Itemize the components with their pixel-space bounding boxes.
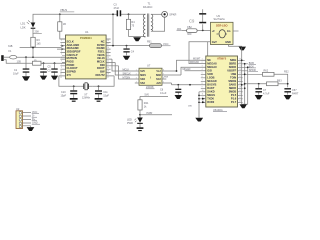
svg-text:2MOB: 2MOB xyxy=(229,90,237,94)
svg-text:SS3: SS3 xyxy=(140,82,145,85)
svg-text:MEGS: MEGS xyxy=(207,93,215,97)
node junction C1 tap xyxy=(25,56,27,58)
ground under C1 xyxy=(22,76,30,80)
svg-text:2: 2 xyxy=(61,44,62,46)
wire low row to R63 xyxy=(245,83,267,85)
svg-text:25: 25 xyxy=(239,62,241,64)
svg-text:DA101C: DA101C xyxy=(143,6,153,9)
U1 pin labels right column xyxy=(95,39,105,77)
node junction VBUS to U1 pin1 xyxy=(59,13,61,15)
svg-text:17: 17 xyxy=(107,77,109,79)
wire U5A row7 with C8 xyxy=(172,83,206,85)
U5A pin labels right column xyxy=(227,58,236,104)
svg-text:12MHz: 12MHz xyxy=(82,97,91,100)
svg-text:LD1: LD1 xyxy=(21,22,26,26)
wire VBUS down to U1 pin1 xyxy=(60,14,66,39)
svg-text:VBUS: VBUS xyxy=(60,8,67,12)
node junction C9 tap xyxy=(202,30,204,32)
svg-text:19: 19 xyxy=(107,70,109,72)
U5A left pin stubs xyxy=(199,60,206,95)
svg-text:MEGAC: MEGAC xyxy=(207,65,217,69)
node junction C10 tap xyxy=(73,85,75,87)
svg-text:600: 600 xyxy=(187,33,192,36)
svg-text:TXD0: TXD0 xyxy=(207,97,214,101)
node junction LED string to wire xyxy=(32,56,34,58)
ferrite bead FB1 xyxy=(150,44,162,48)
ground usb shield xyxy=(27,127,35,131)
node junction bus B row4 xyxy=(244,73,246,75)
wire U7 SCL up to U5A row0 xyxy=(177,60,206,71)
svg-text:4.7uF: 4.7uF xyxy=(263,92,270,95)
svg-text:6: 6 xyxy=(61,57,62,59)
svg-text:P1.7: P1.7 xyxy=(231,100,237,104)
svg-text:SC2: SC2 xyxy=(156,78,161,81)
svg-text:SMOB: SMOB xyxy=(228,79,236,83)
node junction left drop row11 xyxy=(198,98,200,100)
svg-text:DGND: DGND xyxy=(97,46,105,50)
svg-text:SBRD: SBRD xyxy=(229,62,236,66)
LED LD1 xyxy=(31,23,36,28)
svg-text:22: 22 xyxy=(107,60,109,62)
capacitor C5 xyxy=(54,63,56,75)
wire PWR net xyxy=(140,114,172,116)
speaker jack SPKR xyxy=(162,11,168,17)
svg-text:11: 11 xyxy=(202,94,204,96)
svg-text:10uF: 10uF xyxy=(13,72,19,75)
svg-text:OSI: OSI xyxy=(207,69,212,73)
svg-text:AT89Y5: AT89Y5 xyxy=(217,57,227,60)
svg-text:P1.6: P1.6 xyxy=(231,97,237,101)
svg-text:OuT: OuT xyxy=(212,41,217,44)
U9 right pin stub xyxy=(233,30,239,32)
svg-text:26: 26 xyxy=(239,59,241,61)
svg-text:TOIN: TOIN xyxy=(230,76,236,80)
U7 pin numbers xyxy=(136,70,164,84)
svg-text:XTI: XTI xyxy=(67,73,71,77)
svg-text:MW1: MW1 xyxy=(140,74,146,77)
svg-text:3: 3 xyxy=(136,78,137,80)
svg-text:26: 26 xyxy=(107,47,109,49)
U7 left stub row4 xyxy=(135,82,139,84)
svg-text:16: 16 xyxy=(239,94,241,96)
node junction C11 tap xyxy=(98,85,100,87)
svg-text:MCLK: MCLK xyxy=(97,60,105,64)
node junction left drop row10 xyxy=(198,94,200,96)
node junction left drop row12 xyxy=(198,101,200,103)
ground under C10 xyxy=(70,98,78,100)
svg-text:BUSYB: BUSYB xyxy=(207,83,216,87)
ground under C4 xyxy=(123,56,130,60)
svg-text:MROAD: MROAD xyxy=(190,61,199,64)
svg-text:12: 12 xyxy=(60,77,62,79)
svg-text:18: 18 xyxy=(239,87,241,89)
svg-text:GND: GND xyxy=(225,41,231,44)
wire 5V0 rail to R21 xyxy=(140,95,168,97)
capacitor C2 xyxy=(43,63,45,75)
ground under C7 xyxy=(255,95,263,99)
svg-text:FB1: FB1 xyxy=(147,41,152,44)
svg-text:JD1: JD1 xyxy=(177,27,182,31)
svg-text:PWR: PWR xyxy=(127,122,133,125)
ground under power LED xyxy=(139,124,141,128)
node junction VBUS drop meets FSEL wire xyxy=(112,45,114,47)
svg-text:23: 23 xyxy=(239,69,241,71)
svg-text:FB2: FB2 xyxy=(187,26,192,29)
svg-text:U1: U1 xyxy=(85,30,89,34)
wire U1 FSEL to ferrite xyxy=(106,45,149,47)
node junction R4 top xyxy=(128,13,130,15)
svg-text:SV0: SV0 xyxy=(140,70,145,73)
svg-text:3: 3 xyxy=(61,47,62,49)
svg-text:22: 22 xyxy=(239,73,241,75)
U5A right pin stubs xyxy=(238,60,263,102)
svg-text:SM3: SM3 xyxy=(156,74,162,77)
svg-text:17: 17 xyxy=(239,90,241,92)
wire R63 to junction xyxy=(278,83,288,85)
svg-text:25: 25 xyxy=(107,50,109,52)
pin arrows into U1 left xyxy=(62,45,65,47)
svg-text:7: 7 xyxy=(61,60,62,62)
svg-text:DOUT: DOUT xyxy=(97,66,105,70)
svg-text:47uF: 47uF xyxy=(114,7,120,10)
wire JD1 to U9 xyxy=(182,30,211,32)
svg-text:SBKD: SBKD xyxy=(229,86,236,90)
wire U9 GND to ground xyxy=(229,44,242,47)
svg-text:PCM2904: PCM2904 xyxy=(80,36,92,40)
svg-text:19: 19 xyxy=(239,83,241,85)
LED D2 power xyxy=(139,115,141,118)
wire right bus C xyxy=(245,67,248,104)
svg-text:NIKE: NIKE xyxy=(230,58,236,62)
svg-text:9: 9 xyxy=(202,87,203,89)
svg-text:18: 18 xyxy=(107,74,109,76)
svg-text:CLKOUT: CLKOUT xyxy=(67,66,79,70)
svg-text:4: 4 xyxy=(61,50,62,52)
wire net 31B crossing LED string xyxy=(20,47,61,49)
wire J2 sleeve diagonal xyxy=(4,60,66,63)
resistor R5 xyxy=(33,61,42,65)
svg-text:MIGAD: MIGAD xyxy=(183,68,191,71)
svg-text:1: 1 xyxy=(202,59,203,61)
svg-text:MEGA8: MEGA8 xyxy=(207,62,217,66)
label net stub 208 xyxy=(33,32,42,34)
node junction bus B row1 xyxy=(244,63,246,65)
svg-text:6: 6 xyxy=(202,76,203,78)
svg-text:3: 3 xyxy=(202,66,203,68)
svg-text:24: 24 xyxy=(107,54,109,56)
wire R3 to junction xyxy=(32,47,34,57)
U5A pin labels left column xyxy=(207,58,217,104)
node junction bus A row0 xyxy=(241,59,243,61)
wire secondary top to speaker xyxy=(151,13,162,15)
wire secondary bottom to speaker xyxy=(151,17,165,31)
ferrite bead FB2 xyxy=(187,29,198,33)
ground U9 xyxy=(239,47,246,51)
node junction C4 tap xyxy=(126,45,128,47)
U5A pin arrows bottom left xyxy=(199,99,202,103)
svg-text:NEGAD: NEGAD xyxy=(207,79,216,83)
svg-text:+F: +F xyxy=(212,30,215,33)
svg-text:MGMT: MGMT xyxy=(193,57,201,60)
svg-text:DAKT: DAKT xyxy=(207,86,215,90)
svg-text:21: 21 xyxy=(107,64,109,66)
capacitor C7 xyxy=(258,84,260,95)
svg-text:10: 10 xyxy=(202,90,204,92)
node junction bus C row2 xyxy=(247,66,249,68)
svg-text:DOUT2: DOUT2 xyxy=(95,73,105,77)
crystal X1 xyxy=(80,85,92,87)
wire U9 OuT down to U5A xyxy=(189,42,211,64)
svg-text:SAKD: SAKD xyxy=(207,90,214,94)
svg-text:C/BUS-P: C/BUS-P xyxy=(67,53,78,57)
svg-text:SMCLK: SMCLK xyxy=(123,72,132,75)
node junction C7 tap xyxy=(258,83,260,85)
fuse F1 xyxy=(10,55,17,59)
svg-text:R62: R62 xyxy=(264,70,269,73)
U1 left pin stubs xyxy=(57,39,66,76)
node junction on BUSYB wire xyxy=(189,84,191,86)
svg-text:28: 28 xyxy=(107,40,109,42)
svg-text:R63: R63 xyxy=(277,79,282,82)
usb pin wires and net labels xyxy=(23,113,32,124)
capacitor C11 xyxy=(98,86,100,98)
capacitor C57 xyxy=(287,92,289,95)
ground under C57 xyxy=(284,95,292,99)
svg-text:3W8: 3W8 xyxy=(164,76,169,78)
wire U5A left bottom drop xyxy=(198,92,200,118)
svg-text:1: 1 xyxy=(136,70,137,72)
wire transformer primary return xyxy=(129,35,146,37)
node junction C2 tap xyxy=(43,62,45,64)
svg-text:R52: R52 xyxy=(284,70,289,73)
wire VBUS top rail xyxy=(33,14,145,22)
svg-text:SER-LBO: SER-LBO xyxy=(216,24,228,28)
connector J2 audio input jack xyxy=(1,55,4,61)
U7 right pin stubs xyxy=(162,71,181,83)
svg-text:5V0: 5V0 xyxy=(145,93,150,96)
U1 right pin stubs xyxy=(106,39,118,76)
wire U1 DIN bend to U7 xyxy=(115,63,139,76)
wire net AIN-L from fuse to U1 xyxy=(17,56,66,58)
svg-text:23: 23 xyxy=(107,57,109,59)
wire LED to R3 xyxy=(32,29,34,38)
svg-text:20: 20 xyxy=(239,80,241,82)
svg-text:8: 8 xyxy=(61,64,62,66)
svg-text:UBOFF: UBOFF xyxy=(227,69,236,73)
wire VBUS drop to U1 DGND pin rail xyxy=(112,14,114,45)
svg-text:MTDIN: MTDIN xyxy=(123,76,131,79)
U1 pin labels left column xyxy=(67,39,81,77)
svg-text:11: 11 xyxy=(60,74,62,76)
svg-text:LSOB: LSOB xyxy=(207,76,214,80)
node junction C8 tap xyxy=(177,84,179,86)
ground under primary return xyxy=(133,37,141,41)
node junction bus A row7 xyxy=(241,84,243,86)
ground under C2 xyxy=(40,76,47,80)
svg-text:2: 2 xyxy=(136,74,137,76)
wire usb shield to ground xyxy=(23,126,31,127)
resistor R3 xyxy=(31,37,35,47)
wire crystal rail under U1 xyxy=(59,76,114,86)
wire R62 to C57 drop xyxy=(274,74,288,87)
resistor R1 xyxy=(58,22,62,31)
svg-text:U7: U7 xyxy=(147,64,151,68)
wire U5A row3 MIGAD xyxy=(185,70,206,72)
capacitor C3 series on VBUS rail xyxy=(117,10,119,16)
resistor R63 xyxy=(267,82,279,86)
svg-text:VBUS: VBUS xyxy=(97,53,105,57)
ground under C5 xyxy=(51,76,58,80)
wire right bus B xyxy=(242,64,245,105)
svg-text:31B: 31B xyxy=(8,45,13,48)
capacitor C10 xyxy=(73,86,75,98)
wire J2 tip to fuse xyxy=(4,56,10,58)
svg-text:SD2: SD2 xyxy=(140,78,145,81)
svg-text:0.1uF: 0.1uF xyxy=(160,92,167,95)
svg-text:5: 5 xyxy=(202,73,203,75)
resistor R62 xyxy=(263,72,275,76)
svg-text:NE: NE xyxy=(207,58,211,62)
svg-text:SPKR: SPKR xyxy=(169,13,176,17)
resistor R21 xyxy=(139,96,141,114)
node junction bus B row8 xyxy=(244,87,246,89)
U5A pin numbers xyxy=(202,59,241,103)
svg-text:5: 5 xyxy=(61,54,62,56)
ground under C8 xyxy=(175,95,183,99)
capacitor C4 xyxy=(126,46,128,56)
U9 oscillator circle xyxy=(219,30,225,38)
svg-text:15pF: 15pF xyxy=(103,94,109,97)
U1 pin numbers xyxy=(60,40,109,79)
svg-text:SAKD: SAKD xyxy=(229,83,236,87)
svg-text:SCLK: SCLK xyxy=(67,39,74,43)
svg-text:8: 8 xyxy=(202,83,203,85)
wire U1 MCLK bend to U7 xyxy=(112,59,139,71)
svg-text:21: 21 xyxy=(239,76,241,78)
svg-text:SOD: SOD xyxy=(207,72,213,76)
svg-text:1B: 1B xyxy=(63,23,66,26)
wire right bus A xyxy=(241,48,243,105)
wire U1 DOUT bend to U7 xyxy=(119,66,140,79)
svg-text:A20: A20 xyxy=(156,82,161,85)
svg-text:PWR: PWR xyxy=(147,112,153,115)
capacitor C1 xyxy=(25,57,27,76)
svg-text:MCLK: MCLK xyxy=(123,68,130,71)
svg-text:208: 208 xyxy=(35,31,40,34)
svg-text:SOKD: SOKD xyxy=(229,65,237,69)
svg-text:1k5: 1k5 xyxy=(37,43,42,46)
svg-text:15: 15 xyxy=(239,97,241,99)
svg-text:7: 7 xyxy=(202,80,203,82)
svg-text:P/IOS: P/IOS xyxy=(67,60,74,64)
ground under C11 xyxy=(95,98,103,100)
svg-text:1: 1 xyxy=(61,40,62,42)
svg-text:10: 10 xyxy=(60,70,62,72)
node junction MGMT riser xyxy=(176,70,178,72)
svg-text:En: En xyxy=(227,30,231,33)
svg-text:24: 24 xyxy=(239,66,241,68)
ground U5A left xyxy=(195,118,203,122)
svg-text:3D/AGND: 3D/AGND xyxy=(67,46,79,50)
resistor R4 xyxy=(128,14,130,36)
capacitor C9 xyxy=(202,9,204,30)
node junction on VBUS rail xyxy=(112,13,114,15)
svg-text:PART: PART xyxy=(292,92,299,95)
svg-text:VL2: VL2 xyxy=(156,70,161,73)
microcontroller U5A body xyxy=(206,56,238,107)
svg-text:P1.5: P1.5 xyxy=(231,93,237,97)
svg-text:15pF: 15pF xyxy=(61,94,67,97)
wire U7 SDA up to U5A row2 xyxy=(181,67,206,75)
svg-text:14: 14 xyxy=(239,101,241,103)
node junction PWR tap xyxy=(139,114,141,116)
svg-text:SL274whs: SL274whs xyxy=(214,18,226,21)
svg-text:4: 4 xyxy=(202,69,203,71)
ground right bus xyxy=(240,104,247,108)
svg-text:9: 9 xyxy=(61,67,62,69)
wire U9 OuT short drop xyxy=(207,42,209,56)
svg-text:NC: NC xyxy=(101,39,105,43)
svg-text:105: 105 xyxy=(17,60,22,64)
svg-text:LDK: LDK xyxy=(21,25,26,29)
svg-text:20: 20 xyxy=(107,67,109,69)
svg-text:RXD0: RXD0 xyxy=(207,100,214,104)
svg-text:2: 2 xyxy=(202,62,203,64)
svg-text:USB: USB xyxy=(231,72,237,76)
capacitor C8 xyxy=(177,85,179,95)
node junction LED string crosses 31B xyxy=(32,47,34,49)
svg-text:C9: C9 xyxy=(189,18,195,23)
node junction C5 tap xyxy=(54,62,56,64)
